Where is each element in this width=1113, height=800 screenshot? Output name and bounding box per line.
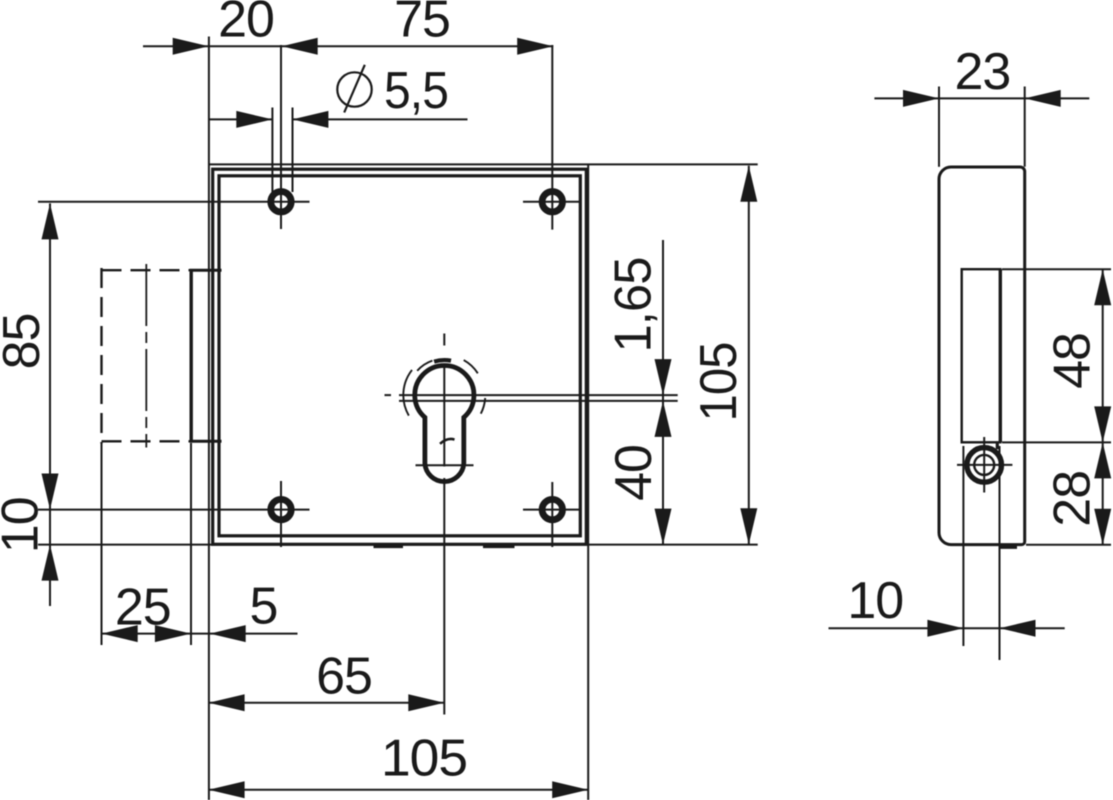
48: [1094, 269, 1111, 305]
bolt thrown position (dashed): [102, 268, 190, 444]
side body outline: [939, 167, 1025, 545]
dim diameter 5,5 line: [209, 118, 273, 120]
keyhole phantom circle (dashed): [403, 370, 412, 416]
dim 65: [209, 702, 445, 704]
screw hole bottom-left: [271, 481, 291, 547]
keyhole centerline horizontal + 1,65 reference lines: [385, 395, 678, 401]
side cylinder plate: [962, 269, 1001, 442]
side plate bottom notch: [996, 442, 999, 449]
dim 23: [874, 97, 1089, 99]
keyhole small inner arc: [440, 439, 455, 444]
23: [903, 90, 939, 107]
bolt (solid, retracted): [190, 269, 222, 442]
65: [209, 694, 245, 711]
dim 105 right: [748, 166, 750, 545]
diameter 5,5: [236, 111, 272, 128]
85: [42, 203, 59, 239]
bolt centerline: [145, 264, 147, 448]
svg-text:5,5: 5,5: [384, 62, 448, 120]
1,65: [655, 359, 672, 395]
svg-text:65: 65: [316, 648, 372, 706]
screw hole top-left: [271, 45, 291, 229]
10 side: [927, 620, 963, 637]
side bottom stub: [999, 545, 1017, 549]
lock case outer box (thick): [213, 169, 587, 544]
dim 25/5: [102, 633, 298, 635]
svg-text:25: 25: [115, 579, 171, 637]
105 right: [740, 166, 757, 202]
svg-text:48: 48: [1044, 333, 1102, 389]
dim 1,65 / 40 right: [662, 240, 664, 545]
svg-text:75: 75: [394, 0, 450, 48]
screw hole top-right: [523, 45, 580, 230]
dim 85/10 left: [49, 203, 51, 606]
label diameter symbol: [337, 65, 371, 113]
arrowheads front: [42, 38, 758, 799]
svg-text:105: 105: [690, 343, 748, 422]
dim 10 side: [829, 627, 1065, 629]
dim 105 bottom: [209, 789, 589, 791]
case bottom mounting tabs: [374, 545, 404, 548]
dim 48/28: [1102, 269, 1104, 545]
20: [173, 38, 209, 55]
euro profile keyhole: [415, 365, 474, 481]
svg-text:85: 85: [0, 314, 51, 370]
svg-text:105: 105: [381, 730, 467, 788]
svg-text:40: 40: [605, 445, 663, 501]
svg-text:5: 5: [250, 578, 278, 636]
svg-text:28: 28: [1044, 471, 1102, 527]
10 left: [42, 545, 59, 581]
svg-text:23: 23: [954, 43, 1010, 101]
screw hole bottom-right: [523, 482, 580, 547]
75: [517, 38, 553, 55]
side screw: [957, 437, 1012, 493]
svg-text:10: 10: [0, 497, 49, 553]
arrowheads side: [903, 90, 1111, 637]
svg-text:1,65: 1,65: [604, 258, 662, 353]
5: [210, 625, 246, 642]
keyhole bottom tick: [416, 464, 474, 466]
svg-text:10: 10: [847, 572, 903, 630]
svg-text:20: 20: [218, 0, 274, 48]
40: [655, 509, 672, 545]
25: [102, 625, 138, 642]
lock case inner box (thick): [219, 176, 580, 536]
105 bottom: [209, 781, 245, 798]
base plate outline (thin outer rectangle): [209, 37, 758, 800]
28: [1094, 442, 1111, 478]
keyhole centerline vertical: [443, 334, 445, 715]
dim 20/75 top line: [143, 45, 553, 47]
